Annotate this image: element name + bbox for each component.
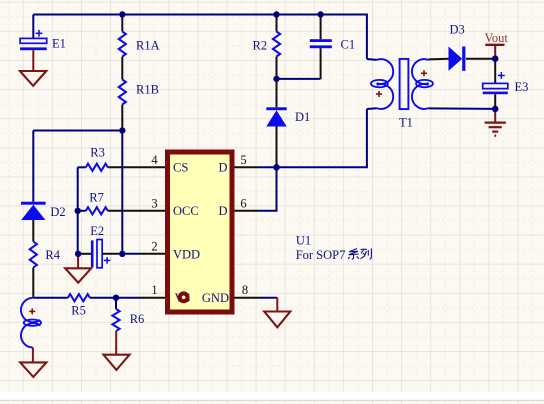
pin 8: [202, 283, 260, 305]
diode D3: [449, 23, 496, 71]
svg-text:D1: D1: [295, 110, 310, 124]
transformer T1 core: [399, 59, 413, 130]
capacitor C1: [310, 15, 355, 79]
svg-text:E3: E3: [515, 80, 529, 94]
svg-text:Vout: Vout: [485, 31, 509, 45]
wire pin8 to ground: [260, 297, 278, 299]
wire C1 to R2 node: [277, 78, 321, 80]
svg-text:D2: D2: [50, 205, 65, 219]
resistor R1B: [119, 57, 159, 131]
capacitor E2: [78, 224, 123, 268]
svg-text:R2: R2: [253, 39, 268, 53]
resistor R7: [78, 191, 140, 215]
wire pin6 tie: [260, 167, 277, 211]
wire mid-left: [33, 130, 122, 132]
svg-text:OCC: OCC: [173, 204, 199, 218]
svg-text:GND: GND: [202, 291, 229, 305]
svg-text:D3: D3: [450, 23, 465, 37]
ground for aux winding: [20, 348, 46, 377]
pin1 name overlay dot: [178, 291, 190, 303]
capacitor E1: [20, 15, 66, 51]
ground for E1: [20, 50, 46, 86]
svg-text:D: D: [218, 204, 227, 218]
bottom sheet edge band: [0, 392, 544, 401]
pin 5: [218, 153, 259, 175]
svg-text:3: 3: [151, 196, 157, 210]
svg-text:4: 4: [151, 153, 158, 167]
resistor R6: [112, 298, 144, 331]
resistor R3: [78, 146, 140, 171]
svg-text:R5: R5: [71, 304, 86, 318]
diode D1: [266, 79, 310, 167]
svg-text:VDD: VDD: [173, 248, 200, 262]
svg-text:For SOP7: For SOP7: [296, 248, 346, 262]
pin 4: [140, 153, 189, 175]
junction node dots: [75, 11, 499, 301]
pin 1: [140, 283, 191, 305]
wire top bus: [33, 15, 367, 60]
svg-text:2: 2: [151, 239, 157, 253]
svg-text:8: 8: [242, 283, 248, 297]
diode D2: [21, 131, 66, 221]
resistor R1A: [119, 15, 160, 57]
ground for E2 rail: [65, 254, 91, 283]
svg-text:R6: R6: [130, 312, 145, 326]
resistor R4: [30, 220, 61, 298]
svg-text:R3: R3: [90, 146, 105, 160]
svg-text:R1B: R1B: [136, 83, 159, 97]
wire left feedback rail: [77, 167, 79, 254]
wire secondary bottom: [429, 107, 496, 110]
svg-text:5: 5: [240, 153, 246, 167]
svg-text:U1: U1: [296, 234, 311, 248]
IC U1 body: [168, 152, 346, 312]
svg-text:R7: R7: [89, 191, 104, 205]
CJK text 系列: [348, 248, 371, 259]
wire VDD feed vertical: [121, 131, 123, 254]
pin 3: [140, 196, 199, 218]
svg-text:1: 1: [151, 283, 157, 297]
svg-text:R4: R4: [45, 248, 60, 262]
ground for R6: [104, 331, 130, 370]
capacitor E3: [483, 59, 529, 109]
transformer T1 primary: [367, 59, 393, 109]
transformer T1 secondary: [412, 59, 433, 109]
svg-text:C1: C1: [341, 37, 356, 51]
pin 2: [140, 239, 201, 261]
svg-text:E1: E1: [52, 37, 66, 51]
aux winding L1: [21, 298, 41, 348]
svg-text:T1: T1: [399, 116, 413, 130]
resistor R2: [253, 15, 281, 79]
pin 6: [218, 196, 259, 218]
resistor R5: [33, 294, 139, 318]
wire E2 to pin2: [122, 253, 139, 255]
svg-text:CS: CS: [173, 161, 188, 175]
ground for pin 8: [264, 298, 290, 328]
wire pin5 net to transformer: [260, 109, 367, 167]
svg-text:E2: E2: [90, 224, 104, 238]
svg-text:R1A: R1A: [136, 39, 160, 53]
power port Vout: [485, 31, 509, 59]
svg-text:D: D: [218, 161, 227, 175]
svg-text:6: 6: [240, 196, 246, 210]
wire secondary top to D3: [429, 58, 449, 61]
earth ground for E3: [485, 109, 506, 136]
